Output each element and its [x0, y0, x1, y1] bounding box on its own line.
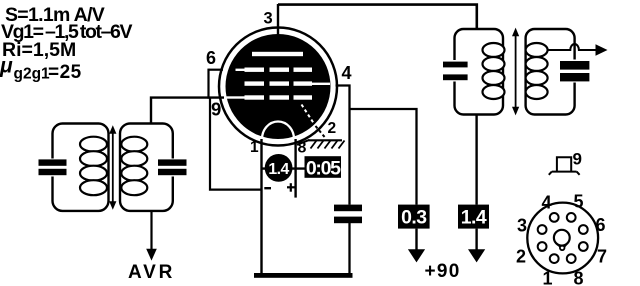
- secondary tuning capacitor: [560, 61, 589, 81]
- AVC feed wire: [150, 211, 152, 250]
- tube socket outline: [527, 203, 598, 274]
- svg-text:6: 6: [206, 48, 216, 68]
- pin 8 filament lead: [294, 139, 296, 198]
- anode supply arrow: [475, 229, 477, 251]
- output arrow: [596, 44, 608, 56]
- parameter text mu g2g1: [0, 55, 82, 84]
- right IF transformer primary tank loop: [455, 29, 504, 115]
- screen feed arrow: [415, 229, 417, 251]
- svg-text:AVR: AVR: [128, 262, 175, 283]
- secondary coil: [121, 137, 147, 196]
- anode plate bar: [252, 52, 303, 56]
- AVC arrow: [146, 249, 157, 261]
- svg-text:1.4: 1.4: [268, 161, 289, 178]
- socket pin hole 8: [567, 254, 576, 263]
- tube V1 envelope: [219, 28, 337, 146]
- coupling arrow right: [512, 28, 519, 116]
- svg-text:6: 6: [596, 215, 606, 235]
- right IF transformer secondary tank loop: [526, 29, 575, 115]
- coupling arrow: [109, 125, 116, 210]
- svg-text:5: 5: [574, 192, 584, 212]
- svg-text:2: 2: [516, 247, 526, 267]
- svg-text:0.3: 0.3: [401, 207, 427, 229]
- primary tuning capacitor: [443, 62, 468, 81]
- svg-text:4: 4: [342, 63, 352, 83]
- anode supply wire to box 1.4: [475, 114, 477, 205]
- left IF transformer secondary tank loop: [120, 124, 173, 211]
- left IF transformer primary tank loop: [53, 124, 109, 211]
- primary coil: [80, 137, 107, 196]
- grid row 1 (pin 6): [236, 68, 313, 72]
- svg-text:8: 8: [298, 140, 307, 157]
- filament supply stub: [262, 167, 305, 169]
- screen feed branch wire: [350, 109, 417, 205]
- socket pin hole 6: [579, 225, 588, 234]
- svg-text:1: 1: [250, 139, 259, 156]
- output tap wire with crossover hop: [547, 44, 597, 50]
- secondary coil: [526, 43, 548, 99]
- pin 8 chassis connector: [297, 140, 310, 145]
- svg-text:1.4: 1.4: [461, 207, 487, 229]
- socket pin hole 2: [538, 242, 547, 251]
- svg-text:3: 3: [517, 216, 527, 236]
- svg-text:2: 2: [328, 120, 337, 137]
- polarity minus: [264, 187, 271, 189]
- svg-text:0:05: 0:05: [306, 158, 341, 180]
- grid row 2 (pin 4): [245, 81, 331, 85]
- pin 2 dashed lead outside: [316, 126, 326, 138]
- socket pin hole 4: [550, 213, 559, 222]
- current label box 1.4: [458, 205, 489, 229]
- socket pin hole 3: [538, 225, 547, 234]
- grid return wire: [210, 98, 262, 190]
- socket pin hole 5: [567, 213, 576, 222]
- socket pin hole 1: [550, 254, 559, 263]
- common negative bus: [254, 273, 353, 278]
- primary tuning capacitor: [39, 159, 67, 175]
- anode supply wire from pin 3 to right transformer: [278, 5, 477, 30]
- filament cathode arc: [262, 122, 294, 140]
- svg-text:+90: +90: [425, 261, 461, 282]
- pin 4 screen lead: [336, 86, 350, 205]
- top cap symbol: [549, 157, 580, 175]
- polarity plus: [287, 183, 295, 192]
- screen decoupling capacitor: [334, 205, 362, 224]
- svg-text:1: 1: [543, 269, 553, 286]
- current label box 0.3: [398, 205, 430, 229]
- wire secondary top to grid (pin 9): [151, 98, 224, 124]
- grid row 3 (pin 9): [227, 95, 313, 99]
- svg-text:Ri=1,5M: Ri=1,5M: [2, 39, 76, 61]
- pin 1 filament lead: [260, 139, 262, 273]
- primary coil: [483, 43, 505, 99]
- pin 6 to pin 9 tie bracket: [207, 69, 209, 99]
- socket pin hole 7: [579, 242, 588, 251]
- svg-text:=25: =25: [48, 62, 82, 83]
- internal shield dashed lead inside disc: [302, 105, 316, 127]
- chassis ground hatch: [309, 140, 345, 148]
- capacitor value box 0.05: [305, 156, 342, 178]
- pin 6 stub: [209, 69, 224, 71]
- svg-text:g2g1: g2g1: [14, 66, 51, 83]
- wire below capacitor: [348, 223, 350, 274]
- svg-text:9: 9: [573, 150, 582, 169]
- pin 3 anode lead: [277, 4, 279, 38]
- svg-text:8: 8: [574, 269, 584, 286]
- filament battery 1.4 V: [265, 154, 293, 182]
- tube V1 electrode disc: [226, 34, 331, 139]
- svg-text:μ: μ: [0, 55, 13, 78]
- svg-text:4: 4: [542, 193, 552, 213]
- socket key spigot: [554, 230, 570, 246]
- svg-text:3: 3: [264, 10, 273, 28]
- secondary tuning capacitor: [158, 159, 187, 175]
- svg-text:7: 7: [597, 247, 607, 267]
